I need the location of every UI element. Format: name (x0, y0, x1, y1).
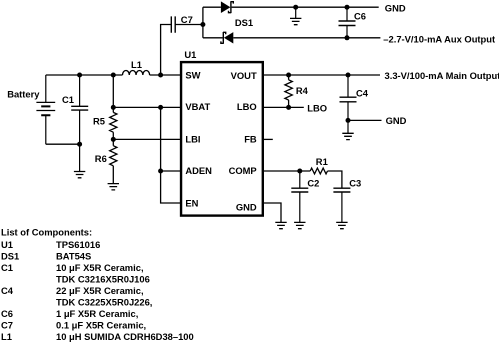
resistor R1 (310, 168, 327, 174)
diode DS1 top (anode left) (221, 1, 233, 13)
wire GND pin stub (263, 203, 281, 222)
ground under C1 (74, 172, 85, 178)
node C4 bottom / gnd rail (346, 118, 351, 123)
wire FB stub (263, 138, 273, 140)
wire VBAT (113, 106, 181, 108)
wire diode junction vertical (202, 7, 204, 38)
list row U1 (1, 239, 100, 250)
svg-text:LBO: LBO (307, 103, 327, 114)
list row C6 (1, 308, 138, 319)
svg-text:VBAT: VBAT (185, 101, 210, 112)
svg-text:List of Components:: List of Components: (1, 226, 92, 237)
resistor R4 (285, 75, 292, 107)
node SW (158, 73, 163, 78)
wire divider drop (112, 75, 114, 112)
wire L1 to SW (150, 74, 181, 76)
svg-text:C2: C2 (307, 178, 319, 189)
op IC U1 box (181, 62, 263, 216)
svg-text:ADEN: ADEN (185, 165, 212, 176)
svg-text:C1: C1 (62, 94, 74, 105)
wire top diode anode (203, 6, 221, 8)
svg-text:GND: GND (385, 3, 406, 14)
node C7/diodes junction (200, 22, 205, 27)
svg-text:TPS61016: TPS61016 (56, 239, 100, 250)
inductor L1 (123, 71, 150, 76)
list row C4 (1, 285, 144, 296)
capacitor C4 (340, 75, 357, 120)
svg-text:VOUT: VOUT (231, 70, 257, 81)
wire LBO (263, 106, 304, 108)
ground top right (290, 7, 301, 25)
svg-text:GND: GND (236, 202, 257, 213)
svg-text:R6: R6 (95, 153, 107, 164)
ground under C2 (294, 222, 305, 228)
svg-text:L1: L1 (1, 331, 12, 342)
node R5/R6 LBI tap (111, 137, 116, 142)
svg-text:C4: C4 (356, 87, 369, 98)
wire R1 to C3 (328, 171, 342, 188)
svg-text:SW: SW (185, 70, 200, 81)
svg-text:LBO: LBO (237, 101, 257, 112)
svg-text:BAT54S: BAT54S (56, 251, 91, 262)
svg-text:TDK C3225X5R0J226,: TDK C3225X5R0J226, (56, 297, 152, 308)
svg-text:FB: FB (244, 133, 257, 144)
capacitor C3 (333, 188, 350, 222)
wire COMP (263, 170, 311, 172)
node C4 top (346, 73, 351, 78)
capacitor C1 (71, 75, 88, 172)
node divider top (111, 73, 116, 78)
list row L1 (1, 331, 194, 342)
node VBAT/EN tie (158, 105, 163, 110)
svg-text:U1: U1 (184, 49, 196, 60)
node C6 bottom on aux rail (345, 35, 350, 40)
wire VBAT to ADEN/EN tie (161, 107, 181, 203)
svg-text:22 μF X5R Ceramic,: 22 μF X5R Ceramic, (56, 285, 144, 296)
ground under GND pin (275, 222, 286, 228)
resistor R6 (110, 146, 117, 166)
svg-text:10 μF X5R Ceramic,: 10 μF X5R Ceramic, (56, 262, 144, 273)
svg-text:U1: U1 (1, 239, 13, 250)
wire top rail y=75 (46, 74, 123, 76)
capacitor C2 (291, 171, 308, 222)
list row C1 (1, 262, 144, 273)
wire aux rail (203, 37, 381, 39)
wire SW up to C7 (161, 25, 172, 76)
svg-text:C6: C6 (1, 308, 13, 319)
wire LBI (113, 138, 181, 140)
node VBAT tap (111, 105, 116, 110)
battery BT (36, 75, 55, 144)
svg-text:DS1: DS1 (235, 17, 253, 28)
node COMP/C2 (297, 169, 302, 174)
node R4 top (286, 73, 291, 78)
svg-text:GND: GND (386, 115, 407, 126)
resistor R5 (110, 112, 117, 132)
svg-text:LBI: LBI (185, 133, 200, 144)
svg-text:C4: C4 (1, 285, 14, 296)
svg-text:–2.7-V/10-mA Aux Output: –2.7-V/10-mA Aux Output (383, 33, 495, 44)
diode DS1 bottom (cathode left) (221, 32, 233, 44)
svg-text:3.3-V/100-mA Main Output: 3.3-V/100-mA Main Output (385, 70, 499, 81)
wire R5 to R6 (112, 132, 114, 146)
wire ADEN (161, 170, 181, 172)
capacitor C7 (171, 16, 203, 32)
svg-text:C1: C1 (1, 262, 13, 273)
svg-text:EN: EN (185, 198, 198, 209)
svg-text:0.1 μF X5R Ceramic,: 0.1 μF X5R Ceramic, (56, 320, 146, 331)
node LBO/R4 (286, 105, 291, 110)
wire VOUT rail (263, 74, 380, 76)
node C1/battery-minus junction (77, 142, 82, 147)
svg-text:COMP: COMP (229, 165, 257, 176)
svg-text:TDK C3216X5R0J106: TDK C3216X5R0J106 (56, 274, 150, 285)
wire battery bottom to C1 ground node (46, 143, 80, 145)
node C6 top (345, 5, 350, 10)
svg-text:L1: L1 (131, 59, 142, 70)
ground under C4 (342, 120, 353, 139)
svg-text:R5: R5 (93, 115, 105, 126)
svg-text:R1: R1 (316, 156, 328, 167)
list row DS1 (1, 251, 91, 262)
svg-text:1 μF X5R Ceramic,: 1 μF X5R Ceramic, (56, 308, 138, 319)
svg-text:10 μH SUMIDA CDRH6D38–100: 10 μH SUMIDA CDRH6D38–100 (56, 331, 194, 342)
wire mid GND stub (348, 119, 382, 121)
wire top rail right (232, 6, 379, 8)
svg-text:C6: C6 (354, 11, 366, 22)
svg-text:DS1: DS1 (1, 251, 19, 262)
svg-text:Battery: Battery (7, 89, 40, 100)
svg-text:C7: C7 (181, 14, 193, 25)
list row C7 (1, 320, 146, 331)
svg-text:R4: R4 (296, 85, 309, 96)
svg-text:C7: C7 (1, 320, 13, 331)
ground under C3 (336, 222, 347, 228)
ground under R6 (108, 184, 119, 190)
wire R6 to ground (112, 166, 114, 184)
node battery/C1 top (77, 73, 82, 78)
node ADEN tie (158, 169, 163, 174)
svg-text:C3: C3 (349, 178, 361, 189)
capacitor C6 (339, 7, 356, 38)
node top ground tap (293, 5, 298, 10)
